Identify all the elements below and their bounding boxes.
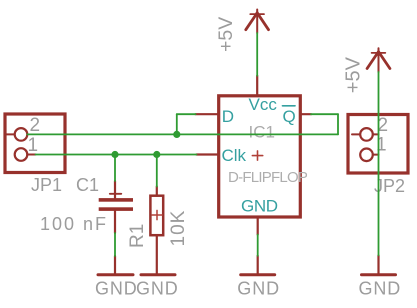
svg-text:IC1: IC1 [249,122,275,141]
IC1 pin Vcc (top) [256,76,258,96]
wire vertical up from junction to D row [176,114,178,134]
IC1 pin Clk (left) [197,153,219,155]
svg-text:+5V: +5V [215,17,237,52]
svg-text:GND: GND [241,197,278,216]
connector JP2 [348,115,408,174]
wire down to R1 [156,155,158,187]
wire Qbar to corner [311,113,338,115]
svg-text:D: D [222,107,234,126]
wire IC1 GND to ground [257,235,259,256]
wire C1 to ground [114,233,116,256]
svg-text:R1: R1 [127,224,148,248]
IC1 pin GND (bottom) [257,217,259,235]
wire +5V to IC1 Vcc [256,33,258,76]
svg-text:Q: Q [283,107,296,126]
IC1 pin Qbar (right) [300,113,311,115]
svg-text:D-FLIPFLOP: D-FLIPFLOP [228,169,308,186]
svg-text:+5V: +5V [342,56,364,93]
wire Qbar corner down [337,114,339,134]
svg-text:GND: GND [359,279,402,299]
wire net JP1.2 to D and Qbar feedback (horizontal) [27,133,338,135]
IC1 pin D (left) [196,113,219,115]
junction node at D branch [173,131,180,138]
ground symbol (left, under C1) [98,256,133,275]
svg-text:C1: C1 [76,175,99,195]
svg-text:Vcc: Vcc [249,95,278,114]
IC1 origin cross [252,151,262,160]
R1 origin cross [152,210,162,219]
wire net JP1.1 / Clk row [36,154,197,156]
svg-text:GND: GND [95,279,138,299]
connector JP1 [5,114,65,173]
capacitor C1 [99,181,133,233]
wire down to C1 [114,155,116,182]
svg-text:10K: 10K [168,210,189,247]
resistor R1 [150,187,163,275]
svg-text:Clk: Clk [222,146,247,165]
svg-text:GND: GND [237,279,280,299]
svg-text:1: 1 [28,135,39,156]
+5V supply symbol (middle) [246,10,269,34]
IC U1/IC1 D-FLIPFLOP body [196,76,312,235]
svg-text:1: 1 [376,135,387,156]
+5V supply symbol (right) [367,48,390,72]
junction node at R1 branch [153,151,160,158]
junction node at C1 branch [111,151,118,158]
wire +5V right rail down past JP2 to ground [378,72,380,255]
ground symbol (center, under IC1) [241,256,275,275]
svg-text:100 nF: 100 nF [40,214,108,234]
svg-text:GND: GND [136,279,179,299]
ground symbol (under R1) [141,273,175,276]
wire horizontal into D pin [177,113,196,115]
ground symbol (right) [362,255,396,274]
svg-text:2: 2 [30,115,41,136]
svg-text:JP1: JP1 [31,175,62,195]
